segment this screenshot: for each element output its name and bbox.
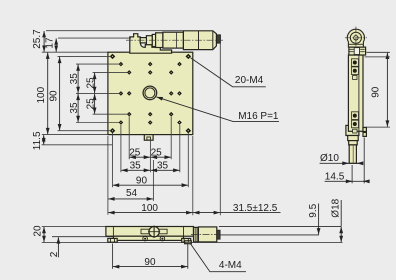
front view: base screws [143, 236, 165, 241]
svg-text:25: 25 [86, 77, 97, 89]
side view: limit knob upper [363, 128, 366, 132]
dim 35 bottom right [151, 169, 180, 171]
ext line: center row [76, 92, 119, 94]
front view: base plate [113, 236, 183, 240]
ext base bottom [52, 236, 113, 238]
side view: screw dots [353, 61, 357, 127]
ext line: corner row bottom [58, 130, 112, 132]
side view: nut [348, 136, 359, 141]
svg-text:Ø10: Ø10 [320, 153, 339, 164]
side view: head split line [348, 43, 363, 45]
leader 4-M4 [191, 244, 247, 272]
svg-text:14.5: 14.5 [325, 171, 345, 182]
side view: limit knob lower [363, 132, 366, 136]
dim 35 bottom left [121, 169, 150, 171]
svg-text:35: 35 [130, 161, 142, 172]
svg-text:11.5: 11.5 [32, 131, 43, 150]
dim Ø18 [340, 200, 342, 226]
side view: main body [348, 55, 363, 131]
top view: 20-M4 hole pattern [119, 62, 182, 125]
dim 35 lower [77, 94, 79, 123]
top view: M16 center hole [143, 86, 157, 100]
top view: thimble bevel line [212, 31, 214, 50]
front view: thimble [198, 227, 216, 242]
svg-text:17: 17 [44, 37, 55, 49]
ext 14.5 left [351, 165, 353, 183]
svg-text:100: 100 [36, 86, 47, 103]
ext line: bracket top [58, 37, 131, 39]
top view: spindle clamp ring [146, 36, 152, 45]
ext line: row 35 bottom [76, 122, 119, 124]
side view group [346, 47, 367, 163]
dim 100 left [47, 53, 49, 135]
front view: right step [185, 241, 192, 244]
top view: stage plate [108, 52, 193, 134]
dim 25 upper [94, 73, 96, 93]
ext 20 top [42, 226, 106, 228]
ext line: micrometer tip down [219, 42, 221, 216]
svg-text:90: 90 [49, 90, 60, 102]
svg-text:20-M4: 20-M4 [235, 75, 264, 86]
front ext line A [219, 225, 341, 227]
top view: micrometer thimble [183, 31, 216, 50]
ext line: corner row top [58, 55, 112, 57]
side view: plate split line [358, 55, 360, 131]
dim 17 [55, 38, 57, 52]
top view: bottom clamp tab [144, 135, 153, 141]
ext line: col 54 down [152, 160, 154, 201]
front view: micrometer centerline [191, 234, 219, 236]
svg-text:35: 35 [157, 161, 169, 172]
side view: bracket notch [354, 48, 359, 55]
svg-text:Ø18: Ø18 [331, 198, 342, 217]
front ext line B [220, 234, 319, 236]
front view: right foot [182, 238, 191, 242]
ext line: col center down [149, 137, 151, 173]
svg-text:20: 20 [32, 225, 43, 237]
top view: micrometer sleeve [163, 32, 184, 48]
dim 90 side [386, 53, 388, 127]
top view: bottom tab screw [147, 137, 151, 140]
leader 20-M4 [191, 58, 266, 87]
top view: micrometer tip [217, 35, 221, 43]
ext line: col corner left down [112, 133, 114, 187]
dim Ø10 [320, 162, 363, 164]
front view: thimble cap [217, 230, 220, 239]
dim 25.7 [43, 31, 45, 52]
ext line: plate right edge down [192, 136, 194, 215]
dim 25 lower [94, 94, 96, 114]
svg-text:M16 P=1: M16 P=1 [238, 111, 279, 122]
side view: bracket hatch lines [350, 49, 365, 51]
svg-text:25: 25 [129, 148, 141, 159]
ext line: 11.5 lower ref [42, 144, 113, 146]
dim 31.5 [193, 212, 220, 214]
svg-text:31.5±12.5: 31.5±12.5 [233, 203, 278, 214]
ext line: col 25 left down [128, 117, 130, 160]
ext line: row 25 top [93, 71, 128, 73]
svg-text:100: 100 [141, 203, 158, 214]
top view: sleeve line [176, 32, 178, 48]
ext line: row 25 bottom [93, 113, 128, 115]
side view: thimble head [347, 29, 364, 47]
ext line: col edge left down [107, 136, 109, 215]
ext 90 side top [365, 56, 390, 58]
dim 2 tail [57, 244, 59, 258]
ext 14.5 right [363, 138, 365, 184]
top view: micrometer bracket [130, 34, 172, 54]
dimension linework [42, 31, 221, 216]
dim 100 bottom [108, 212, 192, 214]
svg-text:35: 35 [69, 102, 80, 114]
dim 25 bottom right [151, 156, 171, 158]
dim 31.5 tail [220, 212, 280, 214]
leader M16 [156, 97, 279, 122]
front view: groove left [141, 229, 149, 234]
side view: screw blocks upper [352, 59, 359, 133]
svg-text:25: 25 [151, 148, 163, 159]
side view: crosshair [355, 27, 357, 51]
top view: corner holes with diamond marks [110, 54, 191, 134]
dim 90 left [59, 57, 61, 131]
side view: post inner lines [352, 145, 354, 163]
ext 90 side top2 [367, 51, 390, 53]
svg-text:90: 90 [144, 257, 156, 268]
top view: micrometer ring1 [152, 34, 155, 46]
side view: body bottom block [346, 125, 359, 135]
ext bottom long line [42, 242, 343, 244]
svg-text:9.5: 9.5 [308, 203, 319, 217]
svg-text:35: 35 [69, 73, 80, 85]
front view group [106, 227, 217, 244]
svg-text:4-M4: 4-M4 [219, 260, 242, 271]
ext line: col corner right down [187, 133, 189, 187]
dim 35 upper [77, 64, 79, 93]
front view: foot slots [110, 239, 188, 242]
svg-text:25: 25 [86, 98, 97, 110]
ext 90 side bottom [365, 126, 390, 128]
front view: groove right [159, 229, 167, 234]
front view: left foot [108, 238, 117, 242]
ext line: micrometer top [46, 30, 184, 32]
top view: hole centers light dots [120, 64, 180, 123]
front view: top plate seams [112, 227, 114, 237]
svg-text:90: 90 [136, 176, 148, 187]
top view: micrometer centerline [126, 39, 223, 41]
svg-text:25.7: 25.7 [32, 29, 43, 49]
ext line: col 35 right down [179, 125, 181, 173]
dimension lines with arrows [42, 31, 390, 272]
dim 9.5 [318, 204, 320, 235]
top view: micrometer spindle [140, 38, 152, 43]
side view: bracket block [349, 47, 366, 55]
ext line: plate bottom edge left [42, 134, 108, 136]
front view: center screw [149, 227, 159, 237]
svg-text:2: 2 [49, 251, 60, 257]
front view: clamp block [194, 227, 199, 242]
top view: thimble divider [198, 31, 200, 50]
dim 11.5 [43, 135, 45, 144]
dim 90 bottom [113, 184, 188, 186]
side view: thimble rings [350, 32, 361, 43]
ext 90 front right [187, 244, 189, 269]
top view: micrometer lock nut [156, 33, 163, 48]
svg-text:54: 54 [126, 188, 138, 199]
front view: top plate [106, 227, 194, 237]
ext line: plate top edge left [42, 51, 108, 53]
ext line: col 25 right down [170, 117, 172, 160]
ext line: col 35 left down [120, 125, 122, 173]
dim 25 bottom left [130, 156, 151, 158]
svg-text:90: 90 [370, 86, 381, 98]
side view: washer [349, 141, 358, 145]
ext 90 front left [112, 244, 114, 269]
front view: clamp inner line [194, 227, 196, 242]
ext line: row 35 top [76, 63, 119, 65]
dim 90 front [113, 266, 188, 268]
dim 2 arrows [57, 237, 59, 243]
dim 20 front [43, 227, 45, 242]
dim 14.5 [325, 180, 369, 182]
dim 54 [108, 198, 153, 200]
side view: post [349, 145, 356, 163]
